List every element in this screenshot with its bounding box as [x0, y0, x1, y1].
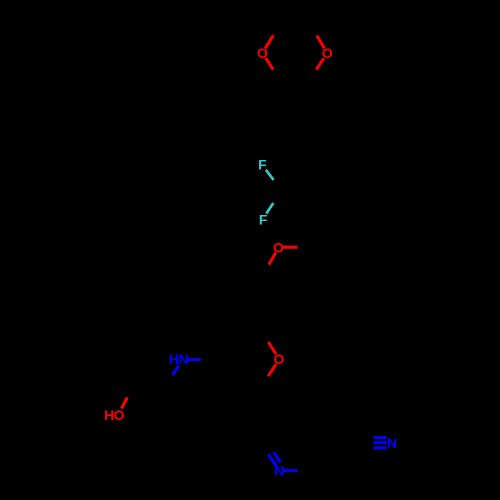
bond N1-C half (down-left blue stub) [173, 365, 179, 375]
atom O4 (dioxine right oxygen) [322, 45, 333, 61]
bond O5-CH3 half (horizontal red line right) [283, 246, 298, 249]
atom N3 (nitrile nitrogen) [387, 435, 397, 451]
bond O6-C half (up-right red stub) [122, 397, 128, 408]
atom O6 (hydroxyl HO) [104, 407, 125, 423]
bond O1-C2 half (up-right red stub) [265, 35, 273, 48]
bond O7-C half (down-left red stub) [268, 364, 276, 376]
bond C=N2 double outer half (up-left blue stub) [268, 454, 278, 468]
bond C=N2 double inner half (up-left blue stub) [274, 452, 281, 462]
bond N2-C half (horizontal blue line right) [283, 469, 297, 472]
bond O1-C8a half (down-right red stub) [266, 58, 274, 70]
bond C#N3 nitrile triple middle line half [373, 441, 387, 444]
atom O5 (methoxy oxygen) [273, 239, 284, 255]
bond O5-Car half (down-left red stub) [269, 253, 276, 265]
bond F1-C half (down-right cyan stub) [266, 170, 274, 180]
atom F2 (lower fluorine) [259, 211, 268, 227]
bond O4-C3 half (up-left red stub) [317, 36, 325, 49]
atom F1 (upper fluorine) [258, 157, 267, 173]
bond C#N3 nitrile triple bottom line half [373, 446, 387, 449]
bond C#N3 nitrile triple top line half [373, 436, 387, 439]
bond F2-C half (up-right cyan stub) [266, 203, 273, 214]
bond O4-C4a half (down-left red stub) [316, 58, 324, 69]
bond O7-C half (up-left red stub) [268, 342, 276, 354]
atom N1 with H (secondary amine HN) [169, 351, 189, 367]
atom O7 (aryl ether oxygen) [273, 351, 284, 367]
svg-text:HN: HN [169, 351, 189, 367]
atom N2 (pyridine nitrogen) [274, 462, 284, 478]
svg-text:N: N [387, 435, 397, 451]
atom O1 (dioxine left oxygen) [257, 45, 268, 61]
svg-text:HO: HO [104, 407, 125, 423]
svg-text:F: F [259, 211, 268, 227]
bond N1-C half (horizontal blue line right) [187, 358, 201, 361]
